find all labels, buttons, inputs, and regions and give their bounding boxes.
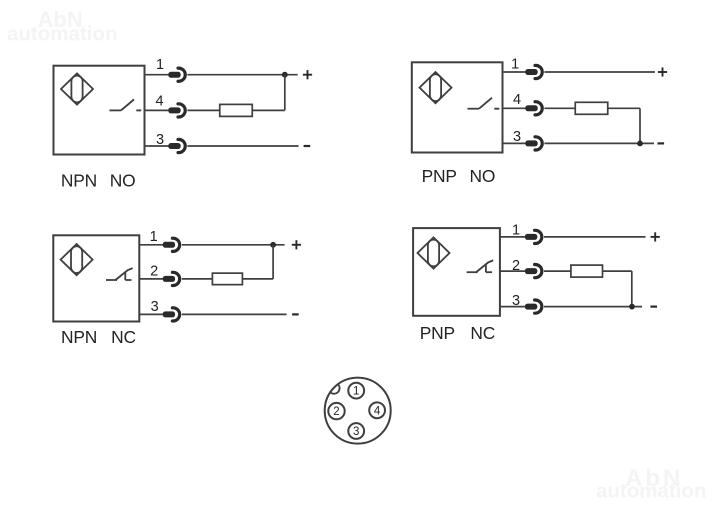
svg-text:1: 1 <box>150 229 158 245</box>
svg-text:3: 3 <box>512 293 520 309</box>
svg-text:NO: NO <box>110 170 136 190</box>
svg-text:3: 3 <box>151 299 159 315</box>
svg-text:PNP: PNP <box>422 166 457 186</box>
svg-text:2: 2 <box>512 258 520 274</box>
svg-text:NC: NC <box>470 323 495 343</box>
svg-text:4: 4 <box>374 405 381 417</box>
svg-text:1: 1 <box>353 386 359 398</box>
svg-text:PNP: PNP <box>420 323 455 343</box>
svg-text:automation: automation <box>7 23 117 46</box>
svg-text:2: 2 <box>333 406 339 418</box>
svg-text:NPN: NPN <box>61 327 97 347</box>
svg-text:4: 4 <box>513 92 521 108</box>
svg-text:NO: NO <box>470 166 496 186</box>
svg-text:NPN: NPN <box>61 170 97 190</box>
svg-text:3: 3 <box>156 132 164 148</box>
svg-text:4: 4 <box>155 94 163 110</box>
svg-text:NC: NC <box>111 327 136 347</box>
svg-text:1: 1 <box>156 57 164 73</box>
svg-text:3: 3 <box>513 129 521 145</box>
svg-text:2: 2 <box>150 263 158 279</box>
svg-text:1: 1 <box>512 223 520 239</box>
svg-text:1: 1 <box>511 56 519 72</box>
svg-text:3: 3 <box>353 426 359 438</box>
svg-text:automation: automation <box>596 480 706 503</box>
